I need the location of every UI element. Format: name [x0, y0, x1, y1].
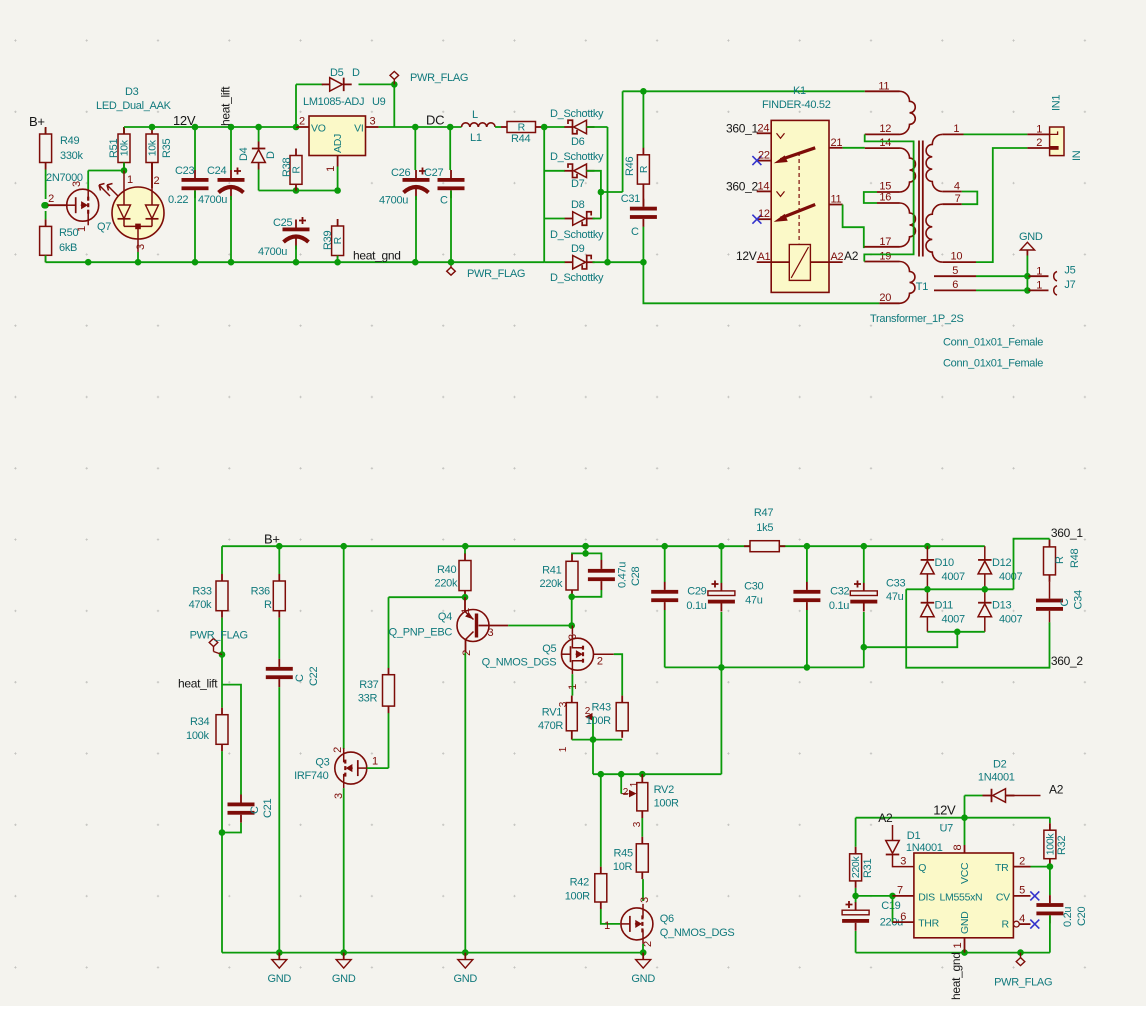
- wire: [151, 163, 153, 189]
- wire: [388, 597, 390, 668]
- wire: [337, 256, 339, 263]
- wire: [641, 818, 643, 837]
- junction: [293, 187, 300, 194]
- wire heat_gnd rail: [46, 255, 644, 262]
- svg-text:11: 11: [878, 81, 889, 93]
- junction: [391, 81, 398, 88]
- wire: [45, 128, 47, 134]
- wire: [542, 126, 566, 128]
- wire: [389, 596, 466, 598]
- svg-text:Q_NMOS_DGS: Q_NMOS_DGS: [482, 657, 557, 669]
- svg-text:470k: 470k: [189, 599, 212, 611]
- svg-text:R36: R36: [251, 586, 270, 598]
- svg-text:GND: GND: [268, 973, 292, 985]
- svg-text:C23: C23: [175, 165, 194, 177]
- svg-text:heat_lift: heat_lift: [178, 677, 218, 691]
- svg-text:12: 12: [879, 123, 891, 135]
- svg-text:R: R: [638, 165, 650, 173]
- wire: [296, 83, 323, 85]
- svg-text:D6: D6: [571, 136, 585, 148]
- svg-text:R49: R49: [60, 135, 79, 147]
- svg-text:C22: C22: [308, 667, 320, 686]
- junction: [582, 543, 589, 550]
- svg-text:1: 1: [558, 746, 569, 752]
- svg-text:R: R: [1054, 556, 1066, 564]
- svg-text:8: 8: [952, 845, 964, 851]
- svg-text:R34: R34: [190, 716, 209, 728]
- svg-text:PWR_FLAG: PWR_FLAG: [994, 977, 1052, 989]
- svg-text:2: 2: [48, 193, 54, 205]
- svg-text:4007: 4007: [942, 614, 965, 626]
- wire: [230, 196, 232, 262]
- junction: [861, 543, 868, 550]
- power flag PWR_FLAG: [390, 71, 468, 84]
- svg-text:1: 1: [1036, 266, 1042, 278]
- wire: [601, 191, 623, 193]
- svg-text:47u: 47u: [745, 595, 763, 607]
- junction: [219, 829, 226, 836]
- svg-text:3: 3: [370, 116, 376, 128]
- svg-text:VO: VO: [311, 123, 326, 135]
- svg-text:A2: A2: [844, 249, 859, 263]
- svg-text:C20: C20: [1076, 907, 1088, 926]
- junction: [804, 543, 811, 550]
- wire: [984, 589, 986, 602]
- svg-text:1: 1: [629, 781, 640, 787]
- wire: [278, 618, 280, 659]
- junction: [889, 893, 896, 900]
- wire: [393, 84, 395, 127]
- svg-text:R47: R47: [754, 507, 773, 519]
- svg-text:C32: C32: [830, 586, 849, 598]
- junction: [1024, 273, 1031, 280]
- svg-text:D_Schottky: D_Schottky: [550, 108, 604, 120]
- svg-text:220k: 220k: [435, 578, 458, 590]
- junction: [924, 543, 931, 550]
- inductor L1: [462, 109, 496, 144]
- svg-text:2: 2: [597, 656, 603, 668]
- svg-text:4: 4: [1019, 913, 1025, 925]
- junction: [582, 543, 589, 550]
- connector IN1: [1027, 95, 1083, 161]
- svg-text:360_2: 360_2: [726, 180, 758, 194]
- wire: [892, 825, 894, 841]
- junction: [1024, 287, 1031, 294]
- svg-text:R42: R42: [570, 877, 589, 889]
- svg-text:3: 3: [567, 634, 579, 640]
- svg-text:1: 1: [76, 226, 88, 232]
- potentiometer RV2: [621, 774, 679, 827]
- svg-text:D13: D13: [992, 600, 1011, 612]
- wire: [464, 653, 466, 953]
- svg-text:R35: R35: [161, 139, 173, 158]
- svg-text:PWR_FLAG: PWR_FLAG: [410, 72, 468, 84]
- svg-text:4: 4: [954, 181, 960, 193]
- potentiometer RV1: [538, 696, 593, 753]
- svg-text:U9: U9: [372, 96, 386, 108]
- wire: [594, 653, 614, 655]
- junction: [568, 622, 575, 629]
- svg-text:R32: R32: [1056, 836, 1068, 855]
- svg-text:33R: 33R: [358, 693, 378, 705]
- svg-text:C30: C30: [744, 581, 763, 593]
- junction: [412, 259, 419, 266]
- svg-text:12: 12: [758, 208, 770, 220]
- svg-text:0.1u: 0.1u: [686, 600, 706, 612]
- svg-text:R: R: [518, 122, 526, 134]
- junction: [718, 543, 725, 550]
- svg-text:10k: 10k: [147, 139, 159, 156]
- svg-text:GND: GND: [1019, 231, 1043, 243]
- svg-text:3: 3: [135, 244, 147, 250]
- wire: [572, 590, 602, 597]
- wire: [343, 546, 345, 749]
- junction: [590, 736, 597, 743]
- svg-text:Conn_01x01_Female: Conn_01x01_Female: [943, 358, 1043, 370]
- wire: [222, 685, 241, 795]
- svg-text:IRF740: IRF740: [294, 770, 328, 782]
- capacitor C31: [621, 193, 657, 238]
- wire: [343, 788, 345, 953]
- svg-text:15: 15: [879, 181, 891, 193]
- svg-text:C19: C19: [881, 900, 900, 912]
- diode D10: [921, 557, 965, 583]
- junction: [41, 202, 48, 209]
- wire: [855, 888, 857, 903]
- wire: [45, 170, 47, 200]
- svg-text:T1: T1: [916, 281, 928, 293]
- svg-text:2: 2: [461, 650, 473, 656]
- wire: [984, 574, 986, 589]
- svg-text:D_Schottky: D_Schottky: [550, 151, 604, 163]
- capacitor C33: [850, 578, 905, 612]
- wire: [45, 204, 67, 206]
- resistor R32: [1044, 823, 1068, 866]
- svg-text:L: L: [472, 109, 478, 121]
- svg-text:1: 1: [372, 756, 378, 768]
- svg-text:THR: THR: [918, 918, 939, 930]
- svg-text:3: 3: [71, 181, 83, 187]
- ground GND 1: [268, 953, 292, 986]
- wire: [571, 674, 573, 695]
- junction: [135, 259, 142, 266]
- svg-text:D2: D2: [993, 759, 1007, 771]
- wire: [1031, 866, 1050, 868]
- svg-text:5: 5: [1019, 885, 1025, 897]
- svg-text:TR: TR: [995, 862, 1009, 874]
- svg-text:D10: D10: [935, 557, 954, 569]
- regulator U9 LM1085-ADJ: [296, 96, 386, 172]
- junction: [276, 543, 283, 550]
- svg-text:C21: C21: [262, 799, 274, 818]
- svg-text:100R: 100R: [586, 715, 611, 727]
- wire: [571, 626, 573, 635]
- junction: [219, 651, 226, 658]
- wire: [214, 652, 223, 655]
- svg-text:R33: R33: [192, 586, 211, 598]
- junction: [541, 124, 548, 131]
- junction: [924, 586, 931, 593]
- power symbol GND: [1019, 231, 1043, 256]
- svg-text:D9: D9: [571, 243, 585, 255]
- wire: [194, 127, 196, 170]
- wire: [258, 127, 260, 142]
- wire: [278, 546, 280, 574]
- svg-text:100R: 100R: [565, 891, 590, 903]
- svg-text:ADJ: ADJ: [332, 134, 344, 153]
- svg-text:C: C: [294, 674, 306, 682]
- wire: [449, 127, 451, 170]
- wire: [1026, 256, 1028, 291]
- junction: [462, 594, 469, 601]
- svg-text:A1: A1: [758, 251, 771, 263]
- wire: [543, 127, 545, 262]
- svg-text:K1: K1: [793, 85, 806, 97]
- svg-text:2: 2: [299, 116, 305, 128]
- wire: [123, 163, 125, 171]
- junction: [718, 664, 725, 671]
- wire: [379, 126, 462, 128]
- diode D11: [921, 600, 965, 626]
- wire: [450, 191, 452, 263]
- diode D5: [322, 67, 360, 91]
- svg-text:LM555xN: LM555xN: [940, 892, 983, 904]
- svg-text:R43: R43: [592, 702, 611, 714]
- svg-text:C29: C29: [687, 586, 706, 598]
- wire: [893, 855, 914, 867]
- capacitor C21: [228, 795, 275, 823]
- power flag PWR_FLAG 4: [994, 953, 1052, 989]
- svg-text:R51: R51: [108, 139, 120, 158]
- wire: [720, 612, 722, 667]
- wire: [614, 654, 622, 695]
- svg-text:47u: 47u: [886, 591, 904, 603]
- svg-text:12V: 12V: [933, 803, 956, 818]
- transistor Q7 2N7000: [46, 172, 111, 233]
- resistor R46: [624, 148, 650, 191]
- resistor R31: [850, 847, 874, 888]
- junction: [852, 893, 859, 900]
- wire: [1005, 795, 1041, 797]
- junction: [598, 771, 605, 778]
- svg-text:PWR_FLAG: PWR_FLAG: [467, 268, 525, 280]
- junction: [448, 259, 455, 266]
- wire: [964, 796, 966, 818]
- capacitor C25: [258, 217, 310, 258]
- wire: [642, 191, 644, 207]
- svg-text:R45: R45: [614, 848, 633, 860]
- wire: [123, 127, 125, 134]
- wire: [495, 126, 501, 128]
- wire: [414, 127, 416, 170]
- junction: [568, 594, 575, 601]
- svg-text:16: 16: [879, 192, 891, 204]
- diode D12: [978, 557, 1022, 583]
- resistor R47: [744, 507, 785, 552]
- svg-text:Q4: Q4: [438, 611, 452, 623]
- connector J5: [1029, 265, 1076, 281]
- svg-text:D11: D11: [935, 600, 954, 612]
- wire: [388, 713, 390, 768]
- svg-text:2: 2: [1036, 137, 1042, 149]
- wire: [720, 667, 722, 774]
- wire: [855, 931, 857, 953]
- wire: [1049, 611, 1051, 623]
- svg-text:IN1: IN1: [1051, 95, 1063, 111]
- junction: [149, 124, 156, 131]
- power flag PWR_FLAG 3: [190, 630, 248, 652]
- wire: [843, 205, 864, 249]
- svg-text:C: C: [249, 806, 261, 814]
- wire: [278, 687, 280, 953]
- wire: [464, 546, 466, 554]
- svg-text:1: 1: [460, 608, 472, 614]
- svg-text:360_1: 360_1: [1051, 526, 1083, 540]
- junction: [85, 259, 92, 266]
- wire: [222, 823, 241, 833]
- svg-text:D4: D4: [238, 147, 250, 161]
- wire: [927, 631, 984, 633]
- junction: [334, 259, 341, 266]
- wire: [415, 196, 417, 262]
- svg-text:D7: D7: [571, 178, 585, 190]
- wire: [221, 618, 223, 708]
- svg-text:220k: 220k: [540, 578, 563, 590]
- junction: [121, 167, 128, 174]
- svg-text:3: 3: [558, 701, 569, 707]
- junction: [1047, 863, 1054, 870]
- svg-text:D8: D8: [571, 199, 585, 211]
- svg-text:10k: 10k: [119, 139, 131, 156]
- svg-text:0.2u: 0.2u: [1062, 907, 1074, 927]
- wire: [1014, 539, 1050, 590]
- wire: [1049, 582, 1051, 599]
- wire: [976, 148, 1027, 262]
- svg-text:R40: R40: [437, 564, 456, 576]
- svg-text:A2: A2: [831, 251, 844, 263]
- svg-text:R39: R39: [322, 231, 334, 250]
- wire: [88, 170, 124, 172]
- wire: [367, 767, 389, 769]
- svg-text:1: 1: [1036, 124, 1042, 136]
- wire: [964, 133, 1028, 135]
- svg-text:D1: D1: [907, 830, 921, 842]
- wire: [601, 909, 620, 924]
- diode D4: [238, 142, 277, 170]
- wire: [593, 261, 608, 263]
- svg-text:470R: 470R: [538, 720, 563, 732]
- capacitor C19: [842, 900, 903, 931]
- resistor R39: [322, 219, 344, 263]
- wire: [587, 171, 601, 219]
- svg-text:4700u: 4700u: [198, 194, 227, 206]
- svg-text:360_2: 360_2: [1051, 654, 1083, 668]
- svg-text:1N4001: 1N4001: [906, 842, 943, 854]
- svg-text:0.1u: 0.1u: [829, 600, 849, 612]
- svg-text:heat_gnd: heat_gnd: [949, 952, 963, 1000]
- svg-text:4700u: 4700u: [379, 195, 408, 207]
- transistor Q5 Q_NMOS_DGS: [482, 634, 603, 690]
- wire: [984, 546, 986, 560]
- svg-text:D_Schottky: D_Schottky: [550, 272, 604, 284]
- svg-text:2: 2: [623, 787, 629, 798]
- wire: [664, 610, 666, 667]
- junction: [640, 259, 647, 266]
- resistor R35: [146, 127, 173, 170]
- svg-text:D5: D5: [330, 67, 344, 79]
- wire: [607, 127, 609, 262]
- wire: [664, 546, 666, 582]
- svg-text:220k: 220k: [850, 856, 862, 879]
- wire: [806, 610, 808, 667]
- svg-text:7: 7: [897, 885, 903, 897]
- svg-text:7: 7: [955, 193, 961, 205]
- wire: [295, 84, 297, 127]
- wire: [984, 617, 986, 632]
- svg-text:17: 17: [879, 236, 891, 248]
- resistor R38: [281, 149, 303, 192]
- wire: [137, 252, 139, 262]
- wire: [1049, 915, 1051, 952]
- diode D9: [550, 243, 604, 284]
- diode D6: [550, 108, 604, 148]
- junction: [640, 949, 647, 956]
- svg-text:5: 5: [952, 265, 958, 277]
- svg-text:4007: 4007: [999, 571, 1022, 583]
- svg-text:C31: C31: [621, 193, 640, 205]
- svg-text:1: 1: [1036, 280, 1042, 292]
- svg-text:R: R: [264, 599, 272, 611]
- svg-text:D: D: [352, 67, 360, 79]
- wire: [976, 289, 1027, 291]
- junction: [228, 259, 235, 266]
- svg-text:D: D: [265, 151, 277, 159]
- capacitor C26: [379, 167, 430, 207]
- junction: [804, 664, 811, 671]
- timer U7 LM555xN: [893, 845, 1040, 953]
- resistor R44: [501, 122, 542, 146]
- svg-text:J7: J7: [1064, 279, 1075, 291]
- power flag PWR_FLAG 2: [447, 262, 525, 280]
- capacitor C23: [168, 165, 209, 206]
- diode D13: [978, 600, 1022, 626]
- wire: [221, 751, 223, 952]
- wire: [1049, 539, 1051, 540]
- svg-text:heat_lift: heat_lift: [219, 86, 233, 126]
- wire: [856, 895, 893, 897]
- svg-text:C: C: [440, 195, 448, 207]
- svg-text:4007: 4007: [999, 614, 1022, 626]
- svg-text:22: 22: [758, 150, 770, 162]
- svg-text:CV: CV: [996, 892, 1010, 904]
- svg-text:10: 10: [951, 251, 963, 263]
- svg-text:100k: 100k: [186, 730, 209, 742]
- wire: [806, 546, 808, 582]
- svg-text:C: C: [1059, 599, 1071, 607]
- junction: [192, 124, 199, 131]
- capacitor C28: [588, 560, 642, 590]
- resistor R43: [586, 696, 629, 738]
- wire: [856, 817, 1050, 819]
- junction: [954, 629, 961, 636]
- svg-text:A2: A2: [1049, 783, 1064, 797]
- junction: [639, 771, 646, 778]
- wire: [855, 818, 857, 847]
- resistor R48: [1044, 540, 1082, 582]
- wire: [906, 588, 1013, 590]
- junction: [582, 550, 589, 557]
- svg-text:C28: C28: [630, 567, 642, 586]
